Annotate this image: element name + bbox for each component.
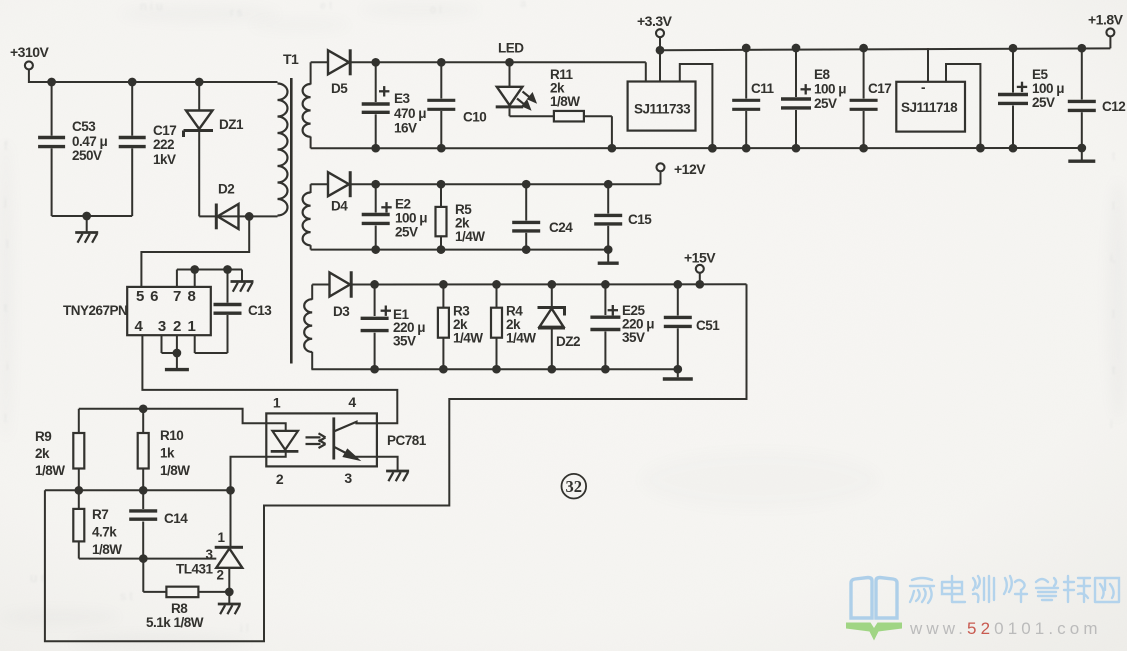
svg-text:SJ111733: SJ111733 — [634, 102, 691, 117]
svg-text:-: - — [921, 80, 925, 95]
svg-text:C13: C13 — [248, 303, 272, 318]
svg-text:DZ1: DZ1 — [219, 117, 244, 132]
svg-text:35V: 35V — [622, 330, 645, 345]
svg-text:2: 2 — [276, 471, 284, 487]
svg-text:2k: 2k — [35, 446, 50, 461]
svg-text:4.7k: 4.7k — [92, 525, 117, 540]
svg-text:1k: 1k — [160, 446, 175, 461]
svg-text:C53: C53 — [72, 119, 96, 134]
svg-text:4: 4 — [134, 318, 143, 335]
svg-text:1/8W: 1/8W — [35, 463, 65, 478]
svg-text:25V: 25V — [814, 96, 837, 111]
svg-text:1/8W: 1/8W — [92, 542, 122, 557]
svg-text:i l: i l — [240, 621, 249, 635]
svg-text:5.1k 1/8W: 5.1k 1/8W — [146, 615, 204, 630]
svg-text:1/4W: 1/4W — [455, 229, 485, 244]
svg-text:C51: C51 — [696, 318, 720, 333]
svg-text:3: 3 — [205, 547, 213, 562]
svg-text:R7: R7 — [92, 507, 108, 522]
svg-text:E3: E3 — [394, 91, 411, 106]
svg-text:6: 6 — [150, 288, 158, 305]
svg-text:+3.3V: +3.3V — [637, 13, 673, 29]
svg-text:8: 8 — [187, 288, 195, 305]
svg-text:470 μ: 470 μ — [394, 106, 426, 121]
svg-text:C17: C17 — [153, 123, 176, 138]
svg-text:1: 1 — [217, 530, 225, 545]
svg-text:TNY267PN: TNY267PN — [63, 303, 127, 318]
svg-text:+310V: +310V — [10, 44, 50, 60]
svg-text:1: 1 — [273, 395, 281, 411]
svg-text:0.47 μ: 0.47 μ — [72, 134, 108, 149]
svg-text:u r: u r — [30, 570, 46, 585]
svg-text:C17: C17 — [868, 81, 891, 96]
svg-text:35V: 35V — [393, 334, 416, 349]
svg-text:R10: R10 — [160, 428, 183, 443]
svg-text:100 μ: 100 μ — [814, 82, 846, 97]
svg-text:SJ111718: SJ111718 — [901, 100, 958, 115]
svg-text:2: 2 — [173, 318, 181, 335]
svg-text:D2: D2 — [218, 182, 234, 197]
svg-text:www.520101.com: www.520101.com — [909, 619, 1102, 638]
svg-text:TL431: TL431 — [176, 562, 214, 577]
svg-text:T1: T1 — [283, 51, 299, 67]
svg-text:E8: E8 — [814, 67, 831, 82]
svg-text:3: 3 — [158, 318, 166, 335]
svg-text:25V: 25V — [395, 225, 418, 240]
svg-text:16V: 16V — [394, 121, 417, 136]
svg-text:3: 3 — [344, 470, 352, 486]
svg-text:1/4W: 1/4W — [453, 331, 483, 346]
svg-text:222: 222 — [153, 137, 174, 152]
svg-text:e t: e t — [320, 0, 332, 12]
svg-text:+1.8V: +1.8V — [1088, 12, 1124, 28]
svg-text:DZ2: DZ2 — [556, 334, 580, 349]
svg-text:E5: E5 — [1032, 67, 1049, 82]
svg-text:D4: D4 — [331, 199, 348, 214]
svg-text:1/8W: 1/8W — [160, 463, 190, 478]
svg-text:R8: R8 — [171, 601, 188, 616]
svg-text:25V: 25V — [1032, 95, 1055, 110]
svg-text:s t: s t — [120, 589, 133, 603]
svg-text:4: 4 — [348, 394, 356, 410]
svg-text:D3: D3 — [333, 304, 350, 319]
svg-text:1/4W: 1/4W — [506, 331, 536, 346]
svg-text:C14: C14 — [164, 511, 188, 526]
svg-text:+12V: +12V — [674, 161, 706, 177]
svg-text:1: 1 — [187, 318, 195, 335]
svg-text:+15V: +15V — [684, 250, 716, 266]
svg-text:i: i — [1110, 417, 1113, 431]
svg-text:C10: C10 — [463, 110, 486, 125]
svg-text:C11: C11 — [751, 81, 775, 96]
svg-text:1kV: 1kV — [153, 152, 176, 167]
svg-text:a: a — [520, 0, 527, 10]
svg-text:C12: C12 — [1102, 99, 1125, 114]
svg-text:R9: R9 — [35, 429, 51, 444]
svg-text:5: 5 — [136, 288, 144, 305]
svg-text:100 μ: 100 μ — [395, 211, 427, 226]
svg-text:C15: C15 — [628, 212, 652, 227]
svg-text:1/8W: 1/8W — [550, 94, 580, 109]
svg-text:C24: C24 — [549, 220, 573, 235]
svg-text:D5: D5 — [331, 81, 348, 96]
svg-text:PC781: PC781 — [387, 433, 427, 448]
svg-text:2: 2 — [216, 568, 223, 583]
svg-text:7: 7 — [173, 288, 181, 305]
svg-text:32: 32 — [566, 477, 583, 496]
svg-text:250V: 250V — [72, 148, 102, 163]
svg-text:LED: LED — [498, 41, 524, 56]
svg-text:E2: E2 — [395, 197, 411, 212]
svg-text:100 μ: 100 μ — [1032, 81, 1064, 96]
